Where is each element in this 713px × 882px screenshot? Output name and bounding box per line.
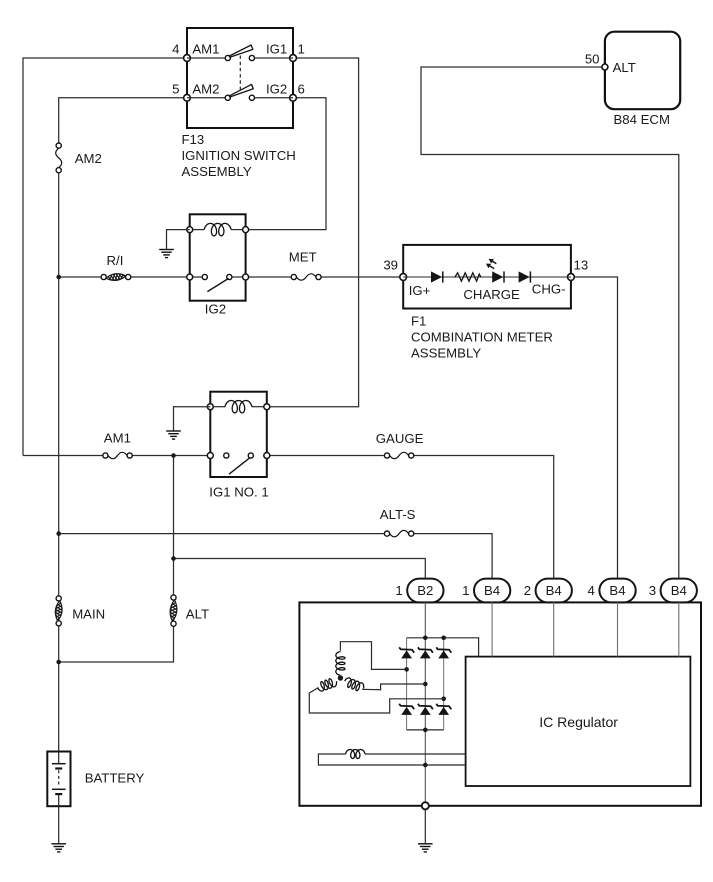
fusible link R/I (braided) (101, 274, 131, 281)
wire: stator phase2 link (362, 684, 425, 690)
wire: IG1 coil to ground (174, 407, 211, 431)
battery internal (52, 752, 66, 807)
ECM box B84 (605, 32, 680, 110)
svg-text:AM1: AM1 (104, 431, 131, 446)
IC regulator box (466, 657, 691, 786)
label CHARGE (463, 287, 520, 302)
resistor (charge lamp) (455, 273, 481, 281)
wire: rotor field loop (318, 754, 465, 765)
wire: battery positive vertical (pin5 AM2 feed, x=58.7) (59, 98, 187, 752)
terminal 50 ALT (602, 64, 608, 70)
connector B2 pin1 (395, 579, 443, 603)
node: ground bus col2 (423, 728, 428, 733)
svg-text:GAUGE: GAUGE (376, 431, 424, 446)
label pin 13 (574, 257, 589, 272)
svg-text:F13: F13 (182, 132, 205, 147)
wire: IG2 pin6 loop down to IG2 relay coil (246, 98, 326, 230)
relay IG2 blade (207, 278, 228, 291)
relay IG1 coil terminals (207, 404, 269, 410)
svg-text:4: 4 (172, 42, 179, 57)
svg-text:50: 50 (585, 52, 600, 67)
svg-text:CHG-: CHG- (532, 282, 566, 297)
relay IG2 box (190, 214, 246, 300)
node: B2 row tap on ALT branch (171, 556, 176, 561)
fuse AM1 (103, 452, 133, 458)
relay IG1 NO.1 box (210, 392, 266, 477)
label pin 39 (383, 257, 398, 272)
ignition switch box F13 (187, 28, 293, 128)
wire: diode column 3 (443, 638, 445, 730)
svg-text:B4: B4 (671, 583, 687, 598)
svg-text:3: 3 (649, 583, 656, 598)
label pin 6 (298, 82, 305, 97)
label IC Regulator (539, 714, 618, 730)
node: ALT branch tap on AM1 row (171, 453, 176, 458)
node: rotor ground tie (423, 763, 428, 768)
label MAIN (72, 606, 105, 621)
label IG1 NO. 1 (209, 485, 268, 500)
terminal 6 IG2 (290, 94, 297, 101)
combination meter box F1 (403, 245, 571, 309)
contact IG2 side (249, 95, 254, 100)
diode rectifier bottom col2 (418, 704, 433, 715)
wire: GAUGE row from relay to B4 pin2 (267, 456, 554, 579)
label MET (289, 250, 317, 265)
wire: B+ bus to IC regulator (407, 638, 479, 657)
wire: battery to chassis ground (58, 806, 60, 844)
wire: AM1 fuse row to IG1 NO.1 relay (23, 455, 210, 457)
label AM1 (fuse) (104, 431, 131, 446)
diode D2 (meter) (519, 271, 531, 282)
wire: IG2 switch row stubs (190, 276, 246, 278)
connector B4 pin4 (588, 579, 636, 603)
svg-text:COMBINATION METER: COMBINATION METER (411, 330, 553, 345)
svg-text:CHARGE: CHARGE (463, 287, 520, 302)
svg-text:AM2: AM2 (192, 82, 219, 97)
ground (alternator) (418, 844, 433, 852)
diode rectifier bottom col1 (399, 704, 414, 715)
wire: B4 pin3 into IC regulator (678, 602, 680, 656)
node: bottom tie on battery vertical (56, 660, 61, 665)
label CHG- (532, 282, 566, 297)
svg-text:F1: F1 (411, 314, 426, 329)
wire: meter pin13 to B4 pin4 (571, 277, 618, 579)
label IG+ (409, 283, 431, 298)
coil stator phase3 (left) (318, 679, 337, 691)
node: stator neutral (338, 675, 343, 680)
label pin 50 (585, 52, 600, 67)
contact IG1 side (249, 55, 254, 60)
node: R/I tap on battery vertical (56, 275, 61, 280)
svg-text:IG2: IG2 (266, 82, 287, 97)
node: ALT-S tap on battery vertical (56, 531, 61, 536)
svg-text:R/I: R/I (107, 253, 124, 268)
svg-text:39: 39 (383, 257, 398, 272)
wire: diode column 2 / B2 feed (424, 602, 426, 805)
label ALT-S (380, 507, 416, 522)
switch lever AM1-IG1 (229, 45, 253, 57)
node: B+ bus col2 (423, 636, 428, 641)
relay IG1 contacts (224, 453, 254, 458)
svg-text:6: 6 (298, 82, 305, 97)
relay IG2 coil terminals (187, 227, 249, 233)
wire: B4 pin4 into IC regulator (617, 602, 619, 656)
svg-text:13: 13 (574, 257, 589, 272)
svg-text:ALT: ALT (186, 606, 209, 621)
label AM1 (switch) (192, 42, 219, 57)
svg-text:1: 1 (298, 42, 305, 57)
svg-text:MET: MET (289, 250, 317, 265)
svg-text:1: 1 (395, 583, 402, 598)
label pin 1 (298, 42, 305, 57)
node: phase1 junction (404, 667, 409, 672)
node: phase3 junction (441, 697, 446, 702)
svg-text:ALT-S: ALT-S (380, 507, 416, 522)
wire: MET row from IG2 relay to meter pin 39 (246, 276, 404, 278)
svg-text:ASSEMBLY: ASSEMBLY (411, 346, 481, 361)
wire: ALT branch vertical and bottom tie row (59, 456, 174, 663)
wire: B4 pin2 into IC regulator (553, 602, 555, 656)
diode D1 (meter) (431, 271, 443, 282)
contact AM1 side (225, 55, 230, 60)
terminal 13 CHG- (568, 274, 575, 281)
fusible link ALT (braided) (170, 595, 177, 626)
diode rectifier top col2 (418, 647, 433, 658)
LED (charge lamp) (492, 271, 504, 282)
wire: ECM ALT pin50 loop to B4 pin3 (421, 67, 679, 579)
label AM2 (fuse) (75, 151, 102, 166)
wire: meter internal row (403, 276, 571, 278)
coil IG1 NO.1 relay (225, 401, 252, 413)
fuse MET (291, 274, 321, 280)
terminal 4 AM1 (184, 55, 191, 62)
terminal 39 IG+ (400, 274, 407, 281)
svg-text:B84 ECM: B84 ECM (614, 112, 670, 127)
svg-text:ASSEMBLY: ASSEMBLY (182, 164, 252, 179)
wire: R/I row from battery vertical to IG2 relay (59, 276, 190, 278)
label R/I (107, 253, 124, 268)
coil IG2 relay (204, 223, 231, 235)
diode rectifier top col3 (436, 647, 451, 658)
label B84 ECM (614, 112, 670, 127)
relay IG2 switch terminals (187, 274, 249, 280)
wire: diode column 1 (406, 638, 408, 730)
fusible link AM2 (vertical fuse) (56, 143, 62, 173)
svg-text:5: 5 (172, 82, 179, 97)
svg-text:2: 2 (524, 583, 531, 598)
mechanical link (dashed) (239, 56, 241, 90)
relay IG2 contacts (202, 274, 232, 279)
coil stator phase2 (right) (345, 678, 364, 691)
svg-text:B4: B4 (609, 583, 625, 598)
svg-text:IC Regulator: IC Regulator (539, 714, 618, 730)
coil rotor field (346, 750, 365, 759)
node: phase2 junction (423, 682, 428, 687)
svg-text:IG1: IG1 (266, 42, 287, 57)
terminal 1 IG1 (290, 55, 297, 62)
svg-text:AM1: AM1 (192, 42, 219, 57)
contact AM2 side (225, 95, 230, 100)
label IG1 (switch) (266, 42, 287, 57)
wire: IG1 pin1 loop down to IG1 NO.1 relay coil (267, 58, 359, 407)
svg-text:MAIN: MAIN (72, 606, 105, 621)
wire: IG2 coil to ground (167, 230, 190, 250)
svg-text:AM2: AM2 (75, 151, 102, 166)
fusible link MAIN (braided) (55, 596, 62, 626)
diode rectifier top col1 (399, 647, 414, 658)
terminal 5 AM2 (184, 94, 191, 101)
wire: alternator ground (424, 806, 426, 844)
label pin 4 (172, 42, 179, 57)
label GAUGE (376, 431, 424, 446)
label IG2 (switch) (266, 82, 287, 97)
wire: rectifier ground bus (407, 729, 444, 731)
connector B4 pin1 (462, 579, 510, 603)
svg-text:B4: B4 (484, 583, 500, 598)
label AM2 (switch) (192, 82, 219, 97)
connector B4 pin3 (649, 579, 697, 603)
label pin 5 (172, 82, 179, 97)
svg-text:1: 1 (462, 583, 469, 598)
switch lever AM2-IG2 (229, 84, 253, 97)
svg-text:B4: B4 (546, 583, 562, 598)
label IG2 (relay) (205, 302, 226, 317)
relay IG1 switch terminals (207, 453, 269, 459)
wire: stator phase3 link (309, 688, 443, 714)
label F13 IGNITION SWITCH ASSEMBLY (182, 132, 296, 179)
fuse GAUGE (384, 452, 413, 458)
svg-text:IG1 NO. 1: IG1 NO. 1 (209, 485, 268, 500)
diode rectifier bottom col3 (436, 704, 451, 715)
ground (IG1 relay coil) (166, 431, 181, 439)
svg-text:B2: B2 (417, 583, 433, 598)
wire: B4 pin1 into IC regulator (491, 602, 493, 656)
wire: AM1 row inside switch (187, 57, 293, 59)
LED arrows (486, 259, 496, 269)
wire: AM2 row inside switch (187, 97, 293, 99)
wire: far-left vertical pin4 to AM1 fuse row (23, 58, 187, 456)
connector B4 pin2 (524, 579, 572, 603)
battery box (47, 752, 70, 807)
wire: stator phase1 link (340, 642, 406, 670)
label BATTERY (85, 770, 145, 785)
coil stator phase1 (top) (336, 652, 345, 676)
relay IG1 blade (229, 457, 250, 474)
fuse ALT-S (384, 530, 413, 536)
node: B+ bus col3 (441, 636, 446, 641)
alternator outer box (299, 602, 701, 805)
label F1 COMBINATION METER ASSEMBLY (411, 314, 553, 361)
svg-text:ALT: ALT (613, 60, 636, 75)
wire: ALT-S row from battery vertical to B4 pin1 (59, 534, 492, 579)
label ALT (ECM) (613, 60, 636, 75)
svg-text:IG+: IG+ (409, 283, 431, 298)
svg-text:IGNITION SWITCH: IGNITION SWITCH (182, 148, 296, 163)
wire: IG1 coil row stubs (210, 406, 266, 408)
wire: B2 row from ALT branch to B2 pin (174, 559, 426, 579)
svg-text:BATTERY: BATTERY (85, 770, 145, 785)
terminal: alternator ground node (422, 802, 429, 809)
ground (IG2 relay coil) (159, 250, 174, 258)
ground (battery) (51, 844, 66, 852)
svg-text:4: 4 (588, 583, 595, 598)
label ALT (fusible link) (186, 606, 209, 621)
svg-text:IG2: IG2 (205, 302, 226, 317)
wire: IG2 coil row stubs (190, 229, 246, 231)
